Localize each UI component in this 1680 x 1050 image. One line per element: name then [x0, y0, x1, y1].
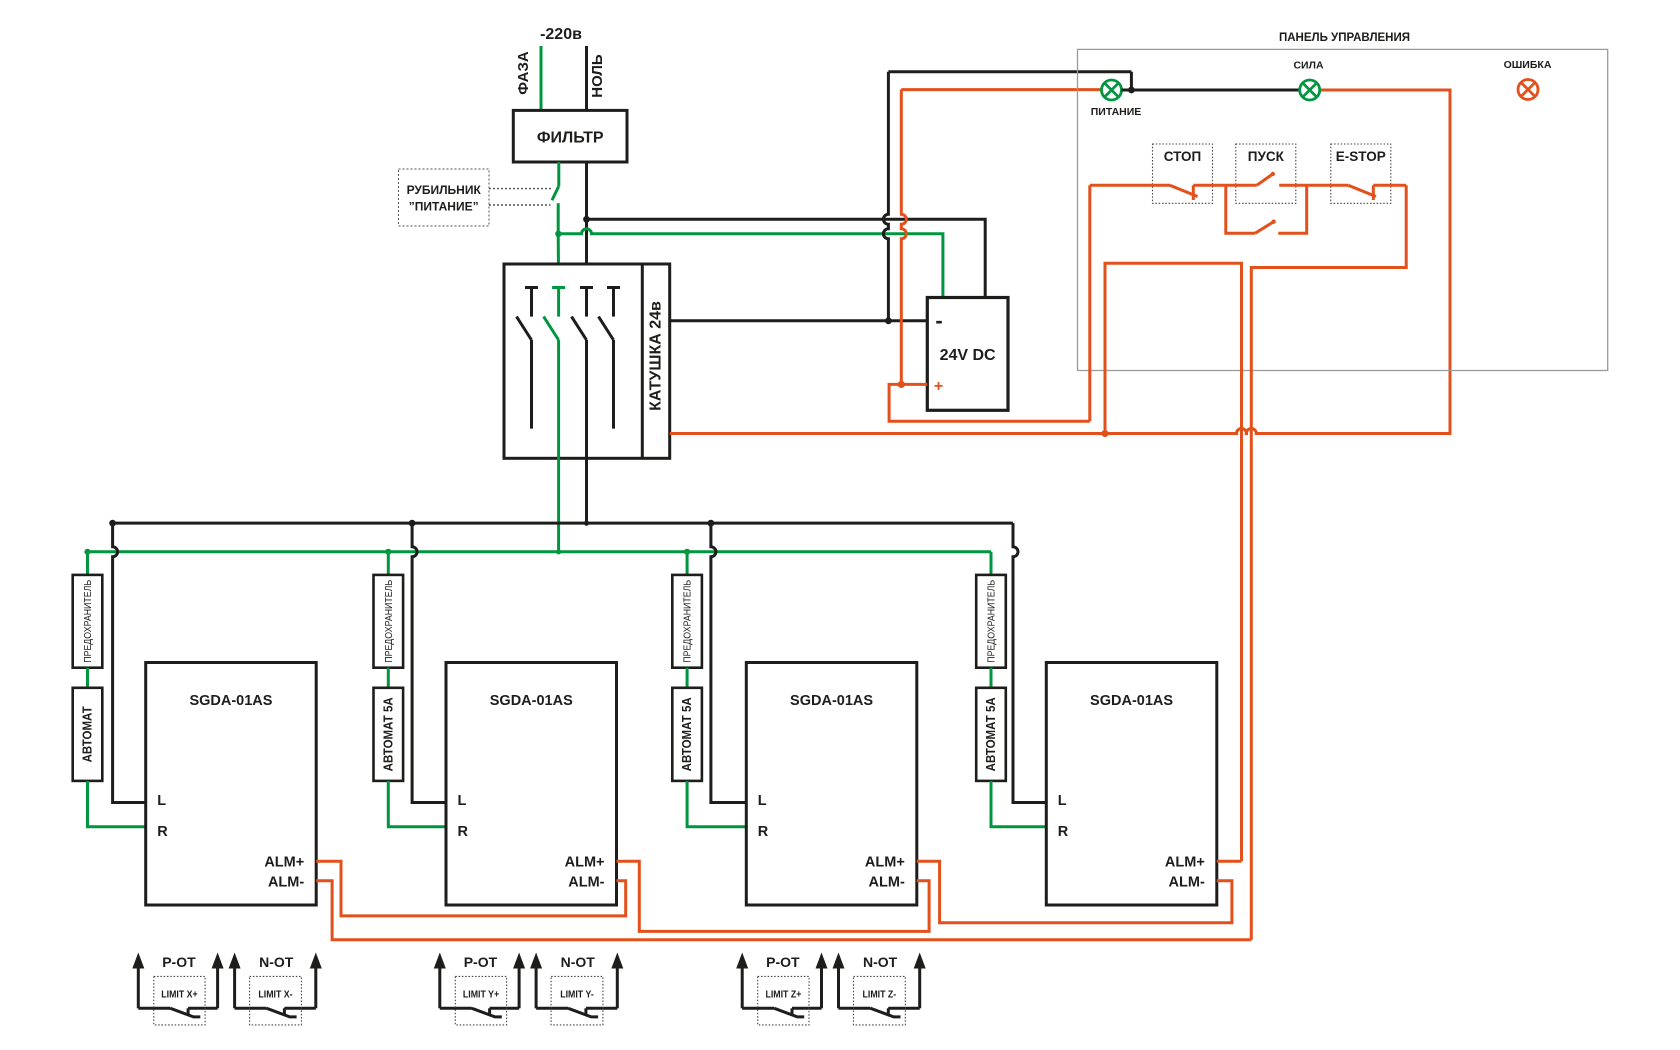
svg-text:LIMIT Z+: LIMIT Z+ [765, 988, 801, 1000]
wire neutral below filter (black) [585, 162, 588, 288]
junction coil node [1101, 430, 1108, 437]
wire coil positive / node bus (orange) [670, 90, 1450, 434]
svg-text:НОЛЬ: НОЛЬ [589, 54, 606, 98]
button E-STOP dotted box [1331, 144, 1391, 203]
svg-text:ПРЕДОХРАНИТЕЛЬ: ПРЕДОХРАНИТЕЛЬ [81, 580, 93, 663]
wire L feed drive U1 (black) [113, 523, 146, 802]
fuse FU1 ПРЕДОХРАНИТЕЛЬ [73, 552, 103, 668]
svg-text:ALM+: ALM+ [1165, 855, 1205, 871]
lamp ОШИБКА [1518, 80, 1538, 100]
label ОШИБКА [1504, 59, 1552, 71]
svg-text:ПИТАНИЕ: ПИТАНИЕ [1091, 106, 1142, 118]
bus neutral (black) [109, 520, 1013, 527]
svg-text:ПРЕДОХРАНИТЕЛЬ: ПРЕДОХРАНИТЕЛЬ [985, 580, 997, 663]
button СТОП dotted box [1153, 144, 1213, 203]
svg-text:24V DC: 24V DC [940, 347, 996, 364]
wire L feed drive U4 (black) [1013, 523, 1046, 802]
junction 24V- node [885, 317, 892, 324]
svg-text:ПУСК: ПУСК [1248, 149, 1285, 164]
wire phase to power supply (green) [558, 229, 943, 298]
contact ПУСК NO (orange) [1257, 172, 1275, 186]
svg-text:-: - [935, 308, 942, 333]
wire after ПУСК (orange) [1279, 184, 1348, 187]
contactor pole 1 [517, 288, 539, 429]
filter box ФИЛЬТР [513, 110, 627, 162]
wire lamp ПИТАНИЕ feed (orange) [901, 90, 1101, 385]
limit switch N-OT LIMIT Y- [530, 953, 623, 1025]
drive U2 pin labels [458, 793, 605, 891]
servo drive U3 SGDA-01AS box [746, 663, 917, 906]
wire L feed drive U2 (black) [412, 523, 446, 802]
svg-text:ALM+: ALM+ [565, 855, 605, 871]
fuse FU2 ПРЕДОХРАНИТЕЛЬ [374, 552, 404, 668]
svg-text:ОШИБКА: ОШИБКА [1504, 59, 1552, 71]
svg-text:КАТУШКА 24в: КАТУШКА 24в [648, 301, 665, 411]
svg-text:LIMIT Y-: LIMIT Y- [560, 988, 594, 1000]
svg-text:L: L [157, 793, 166, 809]
junction 24V+ node [898, 381, 905, 388]
label СИЛА [1293, 60, 1323, 72]
drive U4 pin labels [1058, 793, 1205, 891]
svg-text:P-OT: P-OT [464, 954, 498, 970]
svg-text:ALM+: ALM+ [264, 855, 304, 871]
svg-text:СИЛА: СИЛА [1293, 60, 1323, 72]
svg-text:ФАЗА: ФАЗА [515, 51, 532, 95]
wire neutral to power supply (black) [587, 219, 986, 297]
svg-text:АВТОМАТ 5А: АВТОМАТ 5А [381, 697, 396, 771]
lamp ПИТАНИЕ [1102, 80, 1122, 100]
wire drive U1 ALM- to panel chain (orange) [316, 881, 1251, 940]
wire L feed drive U3 (black) [711, 523, 746, 802]
label КАТУШКА 24в [648, 301, 665, 411]
svg-text:P-OT: P-OT [162, 954, 196, 970]
contactor pole 2 (phase, green) [544, 288, 566, 552]
fuse FU3 ПРЕДОХРАНИТЕЛЬ [672, 552, 702, 668]
junction lamp node [1128, 87, 1135, 94]
label -220в [540, 26, 582, 43]
junction phase node [555, 231, 561, 237]
wire coil negative (black) [670, 319, 928, 322]
svg-text:СТОП: СТОП [1164, 149, 1202, 164]
contactor pole 4 [599, 288, 621, 429]
bus phase (green) [84, 549, 991, 555]
wire drive U1 ALM+ to U2 ALM- (orange) [316, 861, 626, 916]
svg-text:R: R [458, 824, 469, 840]
wire R feed drive U3 (green) [687, 781, 746, 827]
wire drive U3 ALM+ to U4 ALM- (orange) [917, 861, 1232, 923]
wire lamp link (black) [1122, 72, 1300, 90]
svg-text:АВТОМАТ 5А: АВТОМАТ 5А [680, 697, 695, 771]
wire neutral input (black) [585, 46, 588, 110]
svg-text:L: L [758, 793, 767, 809]
svg-text:LIMIT X+: LIMIT X+ [161, 988, 198, 1000]
svg-text:L: L [458, 793, 467, 809]
leader dotted lines [489, 189, 552, 205]
svg-text:”ПИТАНИЕ”: ”ПИТАНИЕ” [409, 200, 479, 214]
wire drive U2 ALM+ to U3 ALM- (orange) [617, 861, 930, 931]
svg-text:R: R [1058, 824, 1069, 840]
servo drive U2 SGDA-01AS box [446, 663, 617, 906]
contact E-STOP NC (orange) [1348, 185, 1406, 200]
breaker QF4 АВТОМАТ 5А [976, 668, 1006, 781]
wire СТОП to ПУСК (orange) [1193, 184, 1256, 187]
limit switch N-OT LIMIT Z- [833, 953, 926, 1025]
svg-text:R: R [157, 824, 168, 840]
breaker QF1 АВТОМАТ [73, 668, 103, 781]
limit switch P-OT LIMIT Z+ [736, 953, 827, 1025]
lamp СИЛА [1300, 80, 1320, 100]
wire 24V+ feed (orange) [889, 384, 1090, 421]
power supply 24V DC box [927, 298, 1008, 411]
contactor pole 3 (neutral) [572, 288, 594, 524]
servo drive U4 SGDA-01AS box [1046, 663, 1217, 906]
svg-text:ФИЛЬТР: ФИЛЬТР [537, 130, 604, 147]
fuse FU4 ПРЕДОХРАНИТЕЛЬ [976, 552, 1006, 668]
contact СТОП NC (orange) [1090, 185, 1198, 200]
button ПУСК dotted box [1236, 144, 1296, 203]
svg-text:E-STOP: E-STOP [1336, 149, 1386, 164]
wire 24V- return (black) [883, 72, 1131, 321]
control panel border [1078, 49, 1608, 370]
svg-text:ALM+: ALM+ [865, 855, 905, 871]
label ПАНЕЛЬ УПРАВЛЕНИЯ [1279, 32, 1410, 44]
breaker QF2 АВТОМАТ 5А [374, 668, 404, 781]
label plus terminal [934, 378, 943, 395]
limit switch P-OT LIMIT X+ [132, 953, 223, 1025]
svg-text:SGDA-01AS: SGDA-01AS [189, 693, 272, 709]
callout box РУБИЛЬНИК ПИТАНИЕ [399, 169, 490, 226]
wire coil node to drive4 ALM+ (orange) [1105, 263, 1242, 861]
svg-text:ПРЕДОХРАНИТЕЛЬ: ПРЕДОХРАНИТЕЛЬ [681, 580, 693, 663]
svg-text:SGDA-01AS: SGDA-01AS [490, 693, 573, 709]
svg-text:ALM-: ALM- [268, 875, 304, 891]
svg-text:АВТОМАТ: АВТОМАТ [80, 706, 95, 763]
svg-text:РУБИЛЬНИК: РУБИЛЬНИК [407, 183, 482, 197]
junction neutral node [583, 216, 590, 223]
disconnector switch blade (green) [552, 162, 559, 200]
contactor KM1 box [504, 264, 670, 458]
label 24V DC [940, 347, 996, 364]
svg-text:N-OT: N-OT [561, 954, 596, 970]
svg-text:ПРЕДОХРАНИТЕЛЬ: ПРЕДОХРАНИТЕЛЬ [382, 580, 394, 663]
svg-text:АВТОМАТ 5А: АВТОМАТ 5А [984, 697, 999, 771]
limit switch P-OT LIMIT Y+ [434, 953, 525, 1025]
svg-text:+: + [934, 378, 943, 395]
svg-text:SGDA-01AS: SGDA-01AS [790, 693, 873, 709]
wire drive U4 ALM+ stub (orange) [1217, 860, 1242, 863]
wire R feed drive U1 (green) [88, 781, 146, 827]
svg-text:-220в: -220в [540, 26, 582, 43]
svg-text:ALM-: ALM- [869, 875, 905, 891]
svg-text:ALM-: ALM- [568, 875, 604, 891]
wire 24V+ riser (orange) [1088, 185, 1091, 421]
limit switch N-OT LIMIT X- [229, 953, 322, 1025]
svg-text:LIMIT Z-: LIMIT Z- [863, 988, 897, 1000]
svg-text:LIMIT X-: LIMIT X- [258, 988, 292, 1000]
self-hold contact KM1 aux (orange) [1226, 185, 1307, 233]
label minus terminal [935, 308, 942, 333]
svg-text:L: L [1058, 793, 1067, 809]
svg-text:N-OT: N-OT [863, 954, 898, 970]
svg-text:N-OT: N-OT [259, 954, 294, 970]
breaker QF3 АВТОМАТ 5А [672, 668, 702, 781]
svg-text:ПАНЕЛЬ УПРАВЛЕНИЯ: ПАНЕЛЬ УПРАВЛЕНИЯ [1279, 32, 1410, 44]
svg-text:ALM-: ALM- [1169, 875, 1205, 891]
svg-text:LIMIT Y+: LIMIT Y+ [463, 988, 500, 1000]
label НОЛЬ [589, 54, 606, 98]
wire R feed drive U2 (green) [388, 781, 446, 827]
svg-text:SGDA-01AS: SGDA-01AS [1090, 693, 1173, 709]
servo drive U1 SGDA-01AS box [146, 663, 317, 906]
label ФАЗА [515, 51, 532, 95]
drive U3 pin labels [758, 793, 905, 891]
wire E-STOP to ALM chain (orange) [1251, 185, 1406, 940]
wire phase below switch (green) [557, 203, 560, 287]
label ПИТАНИЕ [1091, 106, 1142, 118]
wire R feed drive U4 (green) [991, 781, 1046, 827]
svg-text:P-OT: P-OT [766, 954, 800, 970]
svg-text:R: R [758, 824, 769, 840]
wire phase input (green) [540, 46, 543, 110]
drive U1 pin labels [157, 793, 304, 891]
